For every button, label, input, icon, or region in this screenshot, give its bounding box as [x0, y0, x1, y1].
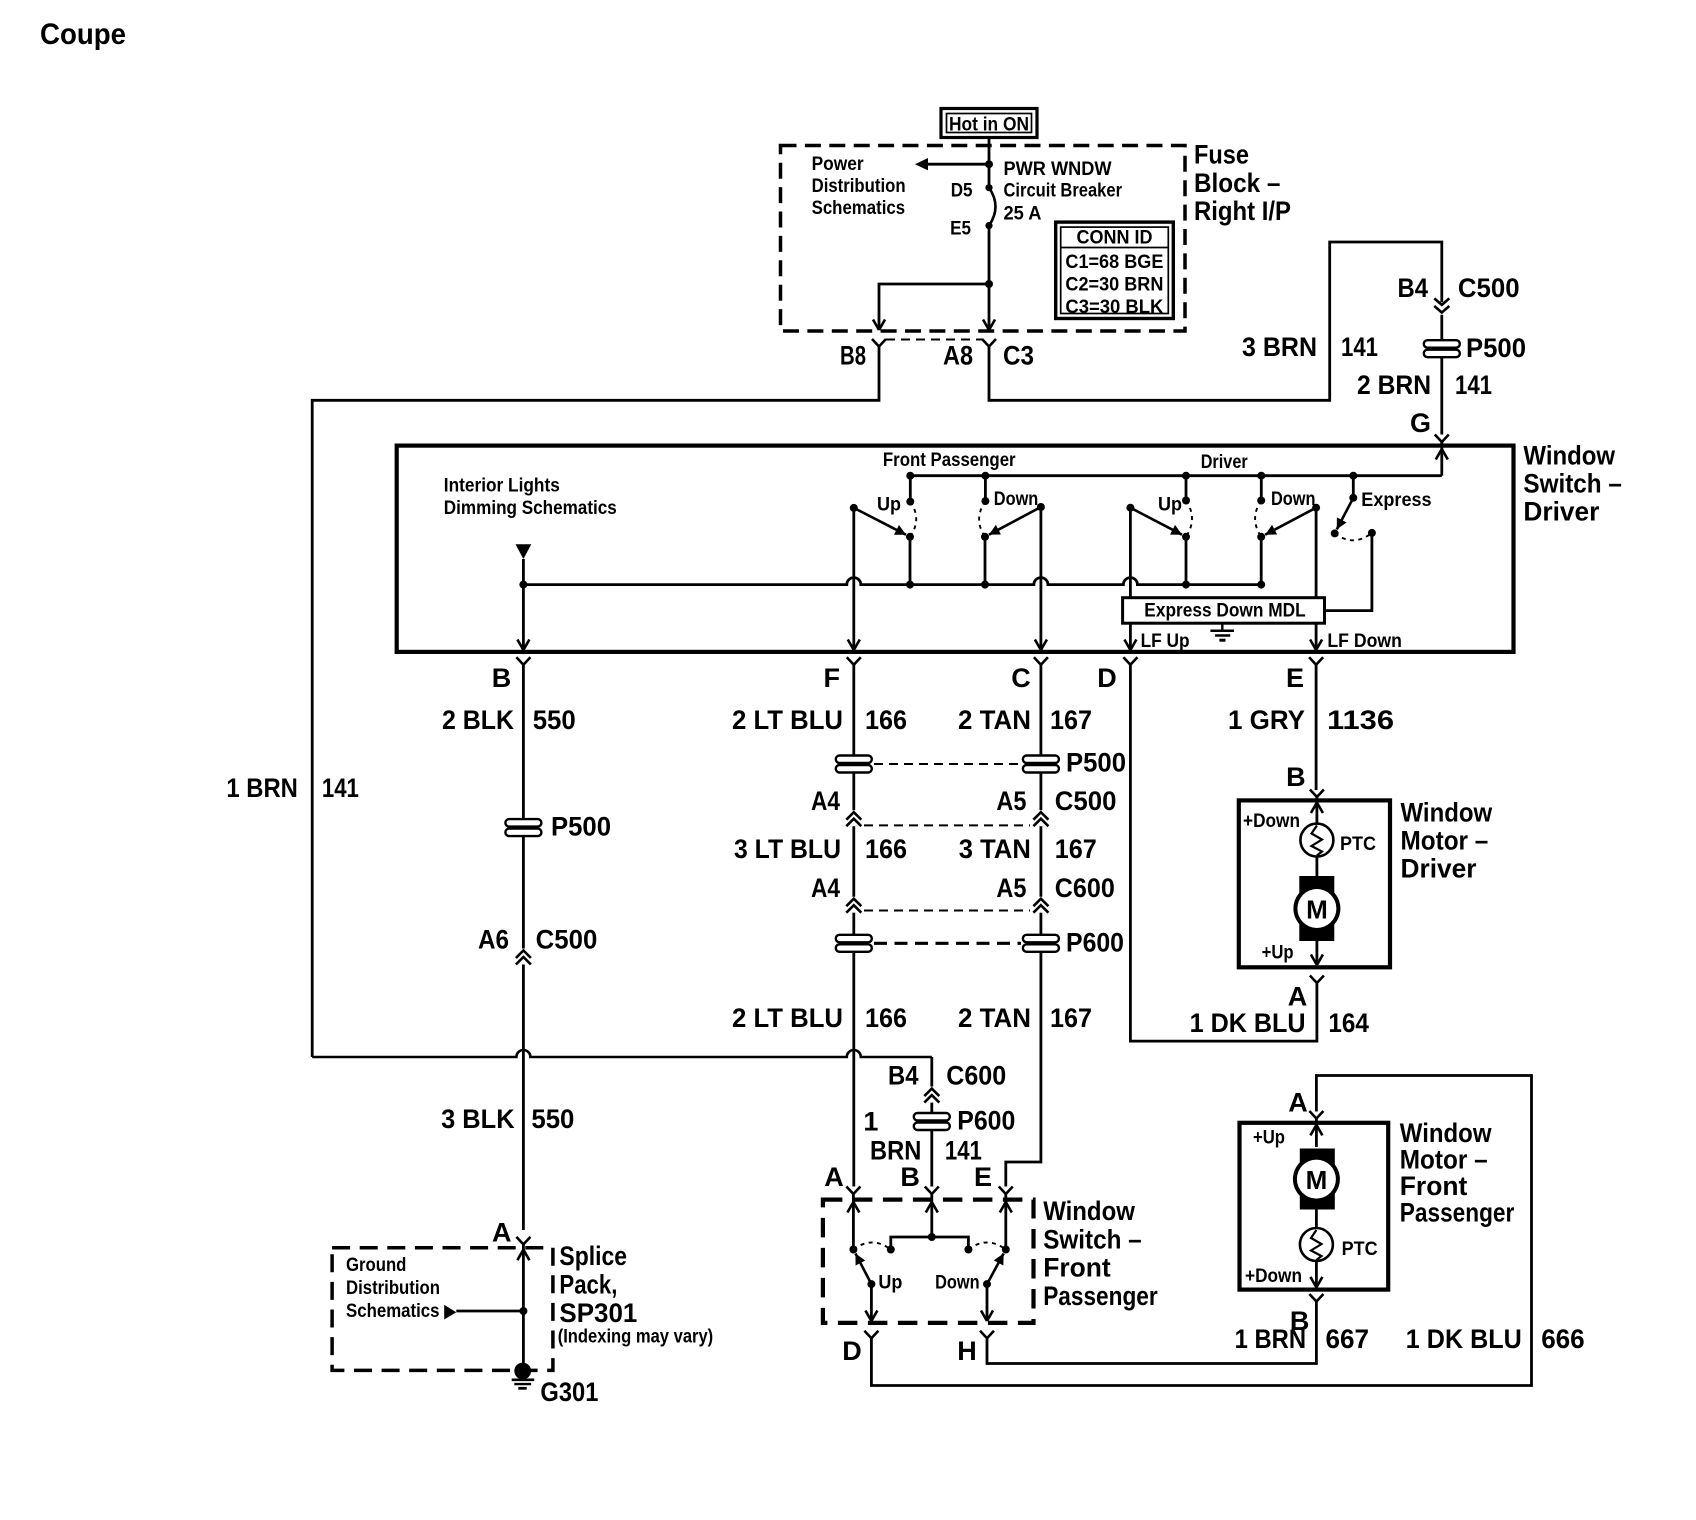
fuse block dashed box [781, 146, 1186, 332]
exit arrow at C [1035, 640, 1047, 651]
svg-text:Distribution: Distribution [346, 1278, 440, 1299]
wire Down pivot to H exit [986, 1284, 989, 1321]
motor M (driver) [1293, 876, 1340, 941]
wire D loop to FP motor A [871, 1076, 1531, 1386]
svg-text:C3: C3 [1003, 341, 1034, 371]
svg-text:PTC: PTC [1340, 834, 1376, 855]
label Front Passenger [883, 450, 1016, 471]
node: splice pack junction [519, 1307, 527, 1315]
label Window Switch - Driver [1523, 441, 1622, 527]
wire B exit (dimming) [522, 585, 525, 650]
connector B (FP switch) [900, 1162, 938, 1194]
wire A into FP motor box [1315, 1119, 1318, 1148]
label 2 LT BLU 166 (lower) [732, 1003, 907, 1033]
label Express [1361, 490, 1431, 511]
label 3 BRN 141 [1242, 332, 1378, 362]
label 2 LT BLU 166 (upper) [732, 705, 907, 735]
ground bus in switch box [519, 578, 1261, 589]
svg-text:A5: A5 [996, 873, 1026, 903]
exit arrow at FP motor B [1310, 1277, 1322, 1288]
svg-text:Pack,: Pack, [559, 1269, 617, 1299]
interior lights reference triangle [516, 544, 532, 559]
svg-text:B: B [900, 1162, 920, 1192]
label 1 BRN 141 (vertical pair) [863, 1106, 982, 1165]
switch Express blade [1331, 498, 1354, 538]
wire P500 to A5 [1040, 773, 1043, 811]
wire Driver Up contact to bus [1182, 537, 1190, 589]
svg-text:Up: Up [878, 1273, 902, 1294]
label +Down (FP motor) [1245, 1266, 1302, 1287]
svg-text:Switch –: Switch – [1523, 469, 1622, 499]
pin D5 [951, 181, 993, 202]
svg-text:PWR WNDW: PWR WNDW [1004, 159, 1112, 180]
svg-text:3 BRN: 3 BRN [1242, 332, 1317, 362]
splice P500 (F wire) [836, 756, 872, 773]
label Up (FP switch) [878, 1273, 902, 1294]
svg-text:P500: P500 [1066, 748, 1126, 778]
svg-text:Up: Up [1158, 494, 1182, 515]
svg-text:Interior Lights: Interior Lights [444, 475, 560, 496]
label 2 TAN 167 (lower) [958, 1003, 1092, 1033]
window switch front passenger dashed box [823, 1200, 1034, 1323]
svg-text:Ground: Ground [346, 1255, 406, 1276]
svg-text:1: 1 [863, 1106, 878, 1136]
switch Driver Down fixed contact [1257, 472, 1265, 505]
svg-text:2 LT BLU: 2 LT BLU [732, 1003, 843, 1033]
svg-text:A: A [1288, 982, 1308, 1012]
wire branch to A8 exit [988, 284, 991, 330]
label Down (driver) [1271, 489, 1316, 510]
wire P600 to FP switch A [852, 952, 855, 1187]
connector A8 [943, 339, 996, 371]
svg-text:1 BRN: 1 BRN [226, 773, 298, 803]
svg-text:A: A [824, 1162, 844, 1192]
svg-text:666: 666 [1541, 1324, 1585, 1354]
wire B into motor box [1316, 797, 1319, 823]
title Coupe [40, 18, 126, 51]
dashed connector line P500 pair [874, 763, 1021, 765]
wire junction to D5 [988, 164, 991, 188]
label Indexing may vary [558, 1327, 714, 1348]
svg-text:Window: Window [1523, 441, 1616, 471]
svg-text:Window: Window [1400, 1118, 1493, 1148]
splice P600 (C wire) [1023, 928, 1124, 958]
splice P500 (B wire) [505, 812, 611, 842]
svg-text:Passenger: Passenger [1043, 1281, 1158, 1311]
wire Hot in ON to fuse block [988, 138, 991, 165]
svg-text:B: B [1286, 762, 1306, 792]
circuit breaker PWR WNDW 25 A [989, 188, 996, 226]
switch FP Down fixed contact [981, 472, 989, 505]
wire PTC to B exit [1315, 1261, 1318, 1287]
label 1 BRN 667 [1235, 1324, 1369, 1354]
dashed connector line A4-A5 C600 [864, 910, 1030, 912]
Express Down MDL box [1123, 598, 1325, 624]
svg-text:Hot in ON: Hot in ON [949, 114, 1029, 136]
svg-text:(Indexing may vary): (Indexing may vary) [558, 1327, 714, 1348]
label Up (driver) [1158, 494, 1182, 515]
svg-text:C2=30 BRN: C2=30 BRN [1065, 275, 1163, 296]
svg-text:M: M [1306, 895, 1328, 925]
svg-text:Passenger: Passenger [1400, 1198, 1515, 1228]
wire A5 to A5 (3 TAN) [1040, 826, 1043, 897]
wire junction to ground stud [522, 1311, 525, 1371]
svg-text:1 GRY: 1 GRY [1228, 705, 1305, 735]
svg-text:LF Down: LF Down [1327, 631, 1402, 652]
exit arrow at FP D [865, 1311, 877, 1322]
motor M (front passenger) [1293, 1149, 1340, 1210]
label Driver [1201, 452, 1249, 473]
svg-text:Motor –: Motor – [1400, 1145, 1488, 1175]
node: branch junction [985, 280, 993, 288]
svg-text:A4: A4 [811, 786, 840, 816]
node: breaker feed junction [985, 160, 993, 168]
label Ground Distribution Schematics [346, 1255, 440, 1322]
switch Driver Up throw arc [1186, 501, 1192, 537]
label 1 BRN 141 (left) [226, 773, 359, 803]
label 2 BLK 550 [442, 705, 576, 735]
svg-text:164: 164 [1328, 1008, 1369, 1038]
svg-text:B: B [492, 663, 512, 693]
splice P500 (right) [1424, 333, 1526, 363]
exit arrow at B8 [873, 320, 885, 331]
label 2 TAN 167 (upper) [958, 705, 1092, 735]
connector A (FP switch) [824, 1162, 860, 1194]
svg-text:C: C [1011, 663, 1031, 693]
svg-text:167: 167 [1055, 834, 1097, 864]
svg-text:E5: E5 [950, 218, 971, 239]
svg-text:Fuse: Fuse [1194, 140, 1249, 170]
switch FP-window Down blade [983, 1253, 1004, 1288]
svg-text:A6: A6 [478, 925, 509, 955]
svg-text:A8: A8 [943, 341, 973, 371]
svg-text:Schematics: Schematics [812, 198, 906, 219]
entry arrow at G [1436, 449, 1448, 460]
svg-text:167: 167 [1050, 705, 1092, 735]
wire P500 to A4 [852, 773, 855, 811]
svg-text:166: 166 [865, 834, 907, 864]
CONN ID table [1056, 222, 1174, 318]
switch Driver Down throw arc [1255, 501, 1261, 537]
connector E (FP switch) [974, 1162, 1013, 1194]
label Window Motor - Driver [1401, 798, 1494, 884]
connector B4 C500 (in-line) [1398, 273, 1520, 313]
pin C3 [1003, 341, 1034, 371]
svg-text:H: H [957, 1336, 977, 1366]
wire motor to PTC [1315, 1210, 1318, 1229]
svg-text:C500: C500 [1055, 786, 1117, 816]
switch Driver Up fixed contact [1182, 472, 1190, 505]
exit arrow at FP H [981, 1311, 993, 1322]
svg-text:141: 141 [1455, 370, 1492, 400]
svg-text:C3=30 BLK: C3=30 BLK [1065, 297, 1163, 318]
ground distribution dashed box [332, 1248, 553, 1371]
wire motor A to D loop [1130, 665, 1317, 1041]
connector A (motor driver) [1288, 976, 1324, 1012]
ground G301 [512, 1363, 599, 1407]
label Splice Pack SP301 [559, 1241, 637, 1328]
wire B4 to P600 [930, 1103, 933, 1113]
wire F exit from FP Up pivot [852, 508, 855, 650]
connector C (switch) [1011, 657, 1048, 693]
svg-text:25 A: 25 A [1004, 204, 1042, 225]
svg-text:C500: C500 [536, 925, 598, 955]
crossbar with fixed contacts [887, 1233, 973, 1254]
svg-text:D5: D5 [951, 181, 973, 202]
svg-text:3 BLK: 3 BLK [441, 1104, 515, 1134]
svg-text:Down: Down [935, 1273, 980, 1294]
wire B pin to crossbar [930, 1194, 933, 1237]
label PWR WNDW Circuit Breaker 25 A [1004, 159, 1123, 225]
switch FP Up fixed contact [906, 472, 914, 506]
svg-text:A: A [1288, 1088, 1308, 1118]
svg-text:B8: B8 [840, 341, 866, 371]
exit arrow at motor A [1311, 955, 1323, 966]
connector B8 [840, 339, 886, 371]
svg-text:A5: A5 [996, 786, 1026, 816]
wire C3 to fuse-block C500 branch [989, 242, 1442, 400]
svg-text:Right I/P: Right I/P [1194, 196, 1291, 226]
label Interior Lights Dimming Schematics [444, 475, 617, 519]
PTC thermistor (motor driver) [1300, 824, 1376, 857]
connector H (FP switch) [957, 1331, 994, 1366]
svg-text:Power: Power [812, 154, 865, 175]
wire C exit from FP Down pivot [1040, 507, 1043, 650]
wire B to P500 [522, 665, 525, 819]
wire PTC to motor [1316, 857, 1319, 879]
wire LF Up from Driver Up pivot [1129, 508, 1132, 650]
dashed connector line A4-A5 C500 [864, 824, 1030, 826]
label Down (front passenger) [994, 489, 1039, 510]
svg-text:550: 550 [531, 1104, 574, 1134]
svg-text:Driver: Driver [1201, 452, 1249, 473]
wire FP Down contact to bus [981, 537, 989, 589]
svg-text:550: 550 [533, 705, 576, 735]
svg-text:P500: P500 [1466, 333, 1526, 363]
splice P600 (1 BRN wire) [914, 1106, 1016, 1136]
svg-text:3 LT BLU: 3 LT BLU [734, 834, 841, 864]
svg-text:141: 141 [322, 773, 359, 803]
wire FP Up contact to bus [906, 537, 914, 589]
label Window Switch - Front Passenger [1043, 1196, 1158, 1311]
wire E to window motor driver B [1315, 665, 1318, 790]
label +Up (FP motor) [1253, 1128, 1285, 1149]
wire P500 to A6 [522, 836, 525, 948]
entry arrow at splice pack A [517, 1250, 529, 1261]
connector A (splice pack) [492, 1218, 530, 1248]
entry arrow at motor B [1311, 803, 1323, 814]
svg-text:Circuit Breaker: Circuit Breaker [1004, 181, 1123, 202]
connector A5 C500 (in-line) [996, 786, 1116, 826]
svg-text:+Down: +Down [1245, 1266, 1302, 1287]
label 2 BRN 141 [1357, 370, 1492, 400]
label +Up (motor driver) [1262, 943, 1294, 964]
svg-text:1 DK BLU: 1 DK BLU [1190, 1008, 1306, 1038]
svg-text:Splice: Splice [559, 1241, 627, 1271]
svg-text:LF Up: LF Up [1141, 631, 1190, 652]
exit arrow at LF Up [1124, 640, 1136, 651]
wire FP motor B to H loop [987, 1302, 1316, 1364]
label 3 TAN 167 [959, 834, 1097, 864]
wire triangle to bus [522, 559, 525, 585]
svg-text:Driver: Driver [1523, 497, 1599, 527]
wire E pin to Down contact [1002, 1194, 1010, 1254]
svg-text:Front: Front [1400, 1171, 1468, 1201]
wire B4 to splice P500 [1440, 315, 1443, 340]
label 1 GRY 1136 [1228, 705, 1394, 735]
wire A6 down to ground pack [522, 965, 525, 1231]
svg-text:P600: P600 [957, 1106, 1015, 1136]
svg-text:F: F [824, 663, 841, 693]
svg-text:1 DK BLU: 1 DK BLU [1406, 1324, 1522, 1354]
connector A5 C600 (in-line) [996, 873, 1114, 913]
label +Down (motor driver) [1243, 811, 1300, 832]
entry arrow at FP A [847, 1202, 859, 1213]
svg-text:141: 141 [1341, 332, 1378, 362]
svg-text:M: M [1306, 1165, 1328, 1195]
label Fuse Block - Right I/P [1194, 140, 1291, 227]
svg-text:1136: 1136 [1327, 705, 1394, 735]
window switch driver box [397, 446, 1514, 652]
pin E5 [950, 218, 993, 239]
svg-text:2 BLK: 2 BLK [442, 705, 514, 735]
switch FP Down throw arc [979, 501, 985, 537]
wire motor to A exit [1316, 941, 1319, 965]
dashed connector line B8-A8 [886, 339, 982, 341]
wire LF Down from Driver Down pivot [1315, 508, 1318, 650]
svg-text:B4: B4 [888, 1061, 919, 1091]
wire branch to B8 [879, 284, 989, 330]
svg-text:2 BRN: 2 BRN [1357, 370, 1431, 400]
wire A5 to P600 [1040, 913, 1043, 935]
svg-text:CONN ID: CONN ID [1077, 227, 1153, 248]
connector F (switch) [824, 657, 861, 693]
splice P600 (F wire) [836, 935, 872, 952]
svg-text:+Down: +Down [1243, 811, 1300, 832]
svg-text:B4: B4 [1398, 273, 1429, 303]
svg-text:P600: P600 [1066, 928, 1124, 958]
entry arrow at FP E [1000, 1202, 1012, 1213]
entry arrow at FP motor A [1310, 1125, 1322, 1136]
wire C to P500 [1040, 665, 1043, 756]
connector A4 C600 (in-line) [811, 873, 861, 913]
svg-text:2 LT BLU: 2 LT BLU [732, 705, 843, 735]
label Window Motor - Front Passenger [1400, 1118, 1515, 1228]
label 1 DK BLU 666 [1406, 1324, 1585, 1354]
wire P600 to FP switch B [930, 1130, 933, 1187]
label LF Down [1327, 631, 1402, 652]
svg-text:G301: G301 [540, 1377, 598, 1407]
wire B8 to front passenger switch B (1 BRN 141) [312, 347, 932, 1087]
svg-text:3 TAN: 3 TAN [959, 834, 1031, 864]
svg-text:Down: Down [994, 489, 1039, 510]
label 3 LT BLU 166 [734, 834, 907, 864]
svg-text:Coupe: Coupe [40, 18, 126, 51]
svg-text:P500: P500 [551, 812, 611, 842]
wire A into ground box [522, 1244, 525, 1311]
switch FP-window Down throw arc [968, 1243, 1005, 1250]
svg-text:A4: A4 [811, 873, 840, 903]
supply rail [910, 474, 1442, 477]
wire P500 to G [1440, 357, 1443, 434]
svg-text:167: 167 [1050, 1003, 1092, 1033]
svg-text:Window: Window [1043, 1196, 1136, 1226]
svg-text:D: D [1097, 663, 1117, 693]
svg-text:A: A [492, 1218, 512, 1248]
svg-text:Front: Front [1043, 1253, 1111, 1283]
ground symbol (MDL) [1210, 623, 1234, 640]
svg-text:C1=68 BGE: C1=68 BGE [1065, 252, 1163, 273]
label LF Up [1141, 631, 1190, 652]
svg-text:Down: Down [1271, 489, 1316, 510]
entry arrow at FP B [926, 1202, 938, 1213]
wire G into switch box [1440, 442, 1443, 476]
svg-text:Front Passenger: Front Passenger [883, 450, 1016, 471]
switch FP-window Up throw arc [853, 1243, 890, 1250]
svg-text:Block –: Block – [1194, 168, 1280, 198]
connector A4 C500 (in-line) [811, 786, 861, 826]
wire E5 down to branch [988, 226, 991, 284]
svg-text:D: D [842, 1336, 862, 1366]
svg-text:Driver: Driver [1401, 854, 1477, 884]
svg-text:C600: C600 [1055, 873, 1115, 903]
connector G [1410, 408, 1449, 442]
svg-text:PTC: PTC [1342, 1239, 1378, 1260]
heavy dashed connector line P600 pair [874, 942, 1021, 945]
svg-text:166: 166 [865, 705, 907, 735]
wire F to P500 [852, 665, 855, 756]
window motor front passenger box [1240, 1123, 1389, 1290]
svg-text:Dimming Schematics: Dimming Schematics [444, 498, 617, 519]
connector A6 C500 (in-line) [478, 925, 597, 965]
connector B (switch) [492, 657, 531, 693]
switch FP Up blade [850, 504, 914, 541]
connector B (motor driver) [1286, 762, 1324, 797]
svg-text:+Up: +Up [1253, 1128, 1285, 1149]
svg-text:2 TAN: 2 TAN [958, 1003, 1031, 1033]
switch Driver Up blade [1126, 504, 1190, 541]
svg-text:+Up: +Up [1262, 943, 1294, 964]
label Power Distribution Schematics [812, 154, 906, 219]
svg-text:G: G [1410, 408, 1431, 438]
svg-text:Switch –: Switch – [1043, 1224, 1142, 1254]
exit arrow at B [517, 640, 529, 651]
svg-text:Window: Window [1401, 798, 1494, 828]
svg-text:C500: C500 [1458, 273, 1520, 303]
switch Express throw arc [1335, 533, 1372, 540]
exit arrow at LF Down [1310, 640, 1322, 651]
ground reference triangle [444, 1305, 456, 1320]
label Up (front passenger) [877, 495, 901, 516]
switch Driver Down blade [1257, 504, 1320, 541]
wire A pin to Up contact [849, 1194, 857, 1254]
svg-text:Up: Up [877, 495, 901, 516]
svg-text:SP301: SP301 [559, 1298, 637, 1328]
svg-text:Schematics: Schematics [346, 1301, 440, 1322]
wire P600 down to FP switch E [1006, 952, 1041, 1187]
power distribution reference arrow [915, 158, 989, 170]
label 1 DK BLU 164 [1190, 1008, 1369, 1038]
exit arrow at A8 [983, 320, 995, 331]
splice P500 (C wire) [1023, 748, 1126, 778]
wire Up pivot to D exit [870, 1284, 873, 1321]
window motor driver box [1239, 800, 1390, 967]
connector E (switch) [1286, 657, 1323, 693]
connector D (FP switch) [842, 1331, 878, 1366]
svg-text:C600: C600 [946, 1061, 1006, 1091]
wire A4 to P600 [852, 913, 855, 935]
svg-text:Express Down MDL: Express Down MDL [1144, 601, 1306, 622]
